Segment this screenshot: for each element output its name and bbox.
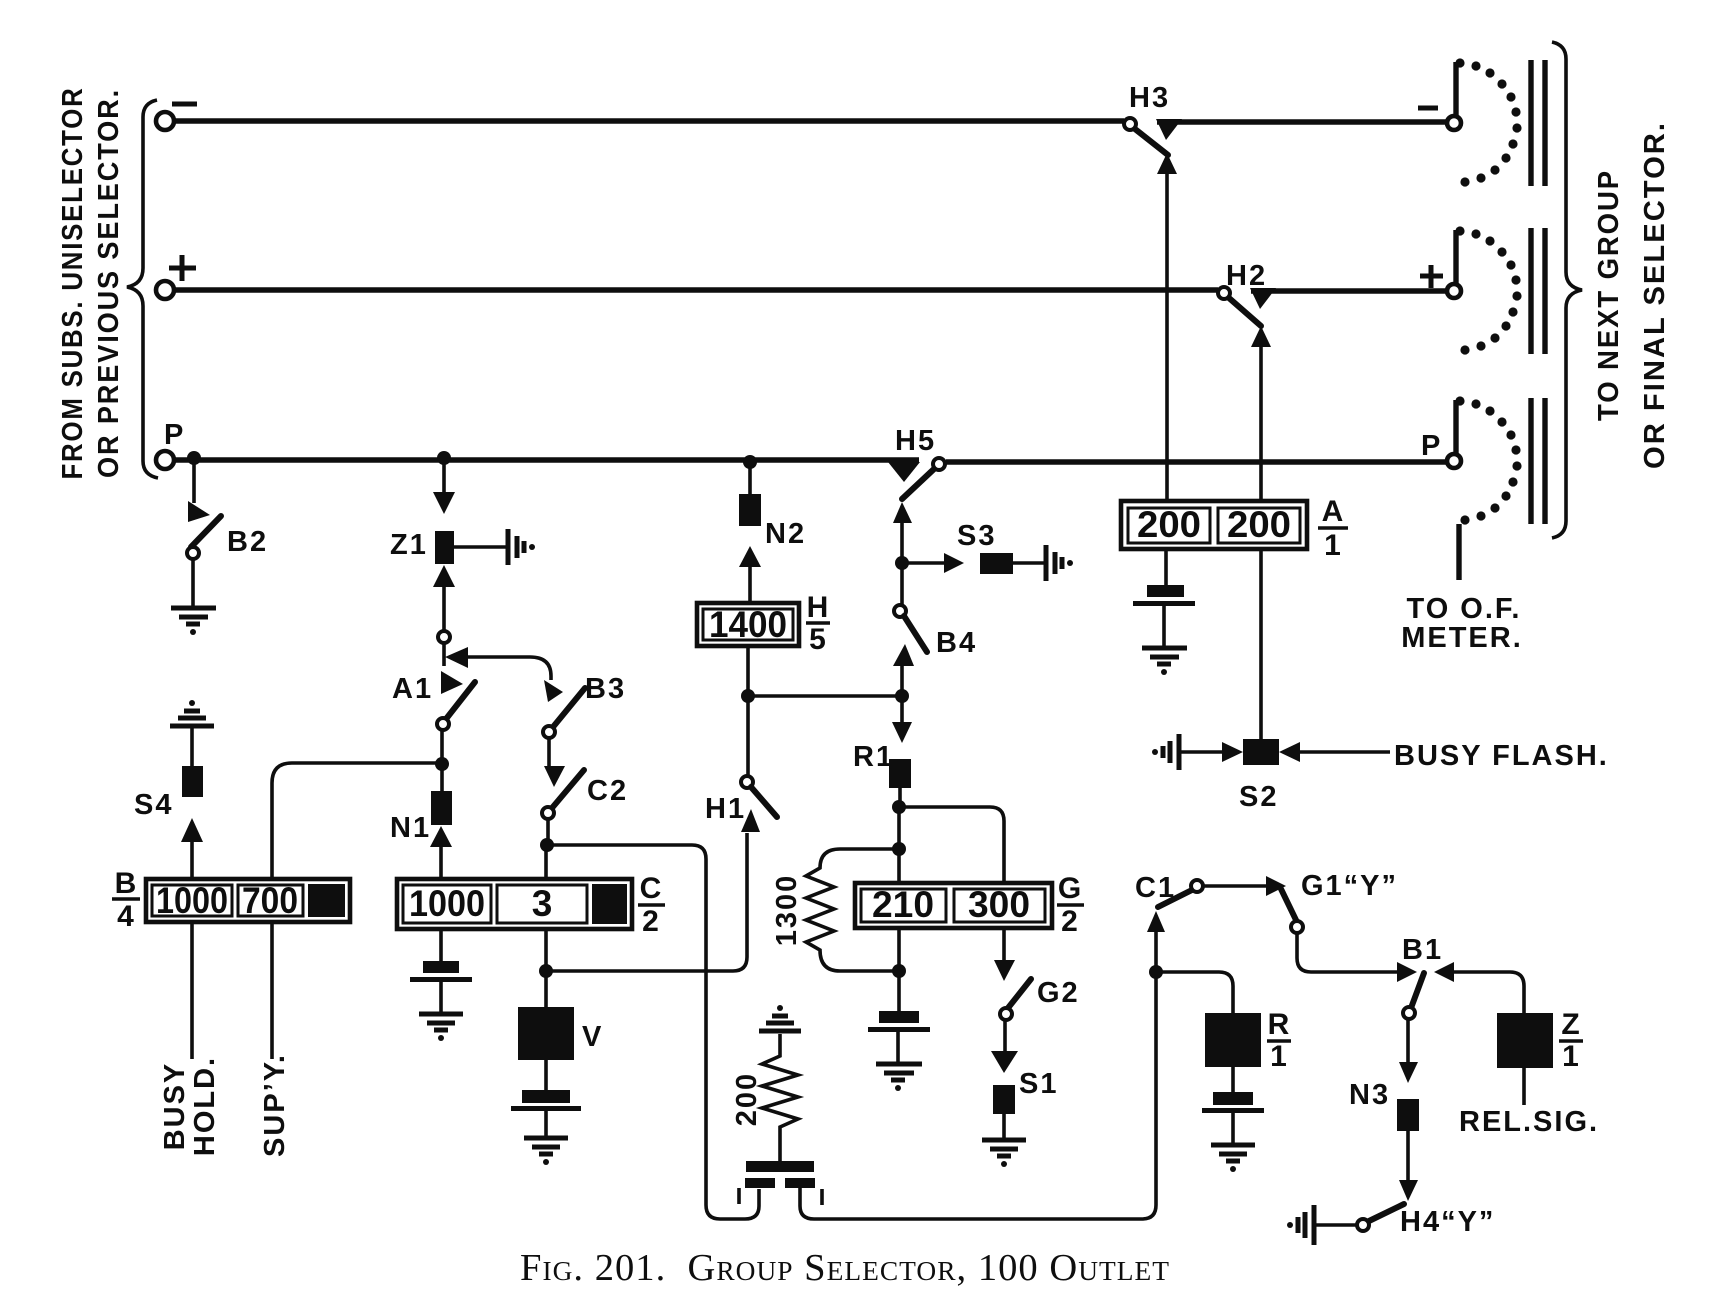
capacitor	[746, 1161, 814, 1172]
terminal plus (left)	[156, 281, 174, 299]
svg-text:G2: G2	[1037, 977, 1080, 1009]
wire battery to ground	[439, 982, 443, 1013]
svg-text:C: C	[640, 872, 663, 905]
svg-text:METER.: METER.	[1401, 622, 1523, 654]
ground (left of S2)	[1152, 734, 1179, 770]
svg-text:R1: R1	[853, 741, 894, 773]
svg-text:1: 1	[1562, 1040, 1580, 1073]
contact H1	[741, 776, 753, 788]
svg-text:700: 700	[242, 880, 298, 921]
node 210 bottom junction	[892, 964, 906, 978]
battery (V)	[522, 1090, 570, 1103]
wire N2 to relay H	[748, 567, 752, 603]
svg-text:2: 2	[1061, 905, 1079, 938]
wire plus bus	[174, 287, 1218, 292]
ground lead into S2	[1222, 742, 1243, 762]
wire to O.F. meter	[1456, 524, 1461, 580]
wire plus bus right segment	[1251, 288, 1447, 293]
wire relay Z to rel sig	[1522, 1068, 1526, 1105]
svg-text:G: G	[1058, 872, 1082, 905]
svg-text:H4“Y”: H4“Y”	[1400, 1206, 1495, 1238]
wire junction to H1	[746, 696, 750, 776]
svg-text:Fig. 201. Group Selector, 100: Fig. 201. Group Selector, 100 Outlet	[520, 1247, 1170, 1289]
ground (A relay)	[1142, 648, 1187, 675]
wire R1 junction to coil 300	[899, 807, 1004, 889]
contact A1	[438, 631, 450, 643]
wire relay H to junction	[746, 646, 750, 696]
wire coil 3 to junction below	[544, 929, 548, 969]
ground (G relay)	[876, 1064, 922, 1091]
wire B2 to ground	[191, 559, 195, 607]
bank contacts P	[1531, 398, 1545, 524]
wire 1000 coil to battery	[439, 929, 443, 961]
svg-text:OR PREVIOUS SELECTOR.: OR PREVIOUS SELECTOR.	[93, 88, 125, 478]
svg-text:H2: H2	[1226, 260, 1267, 292]
right brace (outgoing trunk)	[1552, 42, 1582, 538]
node R1 bottom junction	[892, 800, 906, 814]
svg-text:200: 200	[731, 1072, 763, 1126]
wiper plus	[1447, 284, 1461, 298]
relay Z	[1497, 1013, 1553, 1068]
wire P to N2	[748, 462, 752, 494]
svg-text:N2: N2	[765, 518, 806, 550]
svg-text:A: A	[1322, 495, 1345, 528]
wire B1 to N3	[1406, 1019, 1410, 1063]
svg-text:G1“Y”: G1“Y”	[1301, 870, 1398, 902]
svg-text:N3: N3	[1349, 1079, 1390, 1111]
rectifier arrow below S4	[181, 818, 203, 842]
svg-text:Z: Z	[1561, 1008, 1580, 1041]
wire 700 coil to supply	[270, 922, 274, 1059]
svg-text:210: 210	[872, 884, 934, 925]
svg-text:2: 2	[642, 905, 660, 938]
wire C2 to coil 3	[546, 819, 550, 841]
contact B4	[900, 569, 904, 605]
relay R	[1205, 1013, 1261, 1067]
ground (B2)	[171, 608, 216, 635]
node junction H coil	[741, 689, 755, 703]
wire G1 to B1	[1297, 933, 1397, 972]
node C1 junction	[1149, 965, 1163, 979]
ground (V)	[524, 1138, 568, 1165]
wire junction to S3	[902, 561, 944, 565]
svg-text:HOLD.: HOLD.	[189, 1056, 221, 1156]
svg-text:1400: 1400	[709, 604, 787, 645]
svg-text:R: R	[1268, 1008, 1291, 1041]
wire R to battery	[1231, 1067, 1235, 1092]
relay N3	[1397, 1099, 1419, 1131]
relay S2	[1243, 739, 1279, 765]
svg-text:B3: B3	[585, 673, 626, 705]
wire P bus	[174, 457, 919, 462]
wire S4 to B relay	[190, 842, 194, 879]
relay B/4	[146, 879, 350, 922]
node junction R1	[895, 689, 909, 703]
svg-text:4: 4	[117, 900, 135, 933]
relay N1	[431, 791, 452, 825]
svg-text:S4: S4	[134, 789, 173, 821]
wire to S4	[190, 726, 194, 766]
node C2 junction	[540, 838, 554, 852]
svg-text:1000: 1000	[156, 880, 228, 921]
svg-text:5: 5	[809, 623, 827, 656]
relay S4	[182, 766, 203, 797]
svg-text:H3: H3	[1129, 82, 1170, 114]
resistor 200	[762, 1034, 798, 1161]
svg-text:H: H	[807, 591, 830, 624]
ground (S1)	[982, 1140, 1026, 1167]
wiper P	[1447, 454, 1461, 468]
svg-text:REL.SIG.: REL.SIG.	[1459, 1106, 1599, 1138]
svg-text:Z1: Z1	[390, 529, 428, 561]
wire 1000 coil to busy hold	[190, 922, 194, 1059]
relay R1	[889, 759, 911, 788]
resistor 1300	[806, 849, 899, 971]
node N1 junction	[435, 757, 449, 771]
wire Z1 to ground	[454, 545, 506, 549]
svg-text:B4: B4	[936, 627, 977, 659]
bank contacts plus	[1531, 228, 1545, 354]
svg-text:1000: 1000	[409, 883, 485, 924]
relay Z1	[435, 531, 454, 564]
relay C/2	[397, 879, 632, 929]
wire battery to ground	[1231, 1113, 1235, 1144]
node S3 junction	[895, 556, 909, 570]
wire S3 to ground	[1013, 561, 1045, 565]
ground (C relay)	[419, 1014, 463, 1041]
svg-text:C2: C2	[587, 775, 628, 807]
wire junction to V	[544, 971, 548, 1007]
svg-text:P: P	[164, 419, 185, 451]
relay A/1	[1121, 501, 1307, 549]
wire minus bus right segment	[1157, 119, 1447, 124]
battery (C relay)	[423, 961, 459, 973]
svg-text:TO O.F.: TO O.F.	[1407, 593, 1522, 625]
relay N2	[739, 494, 761, 526]
wire junction row	[748, 694, 902, 698]
node P tap N2	[743, 455, 757, 469]
wire junction to R1	[900, 702, 904, 723]
svg-text:300: 300	[968, 884, 1030, 925]
wire junction to N1	[440, 764, 444, 791]
wire C1 junction to relay R	[1156, 972, 1233, 1013]
wire H5 to S3 junction	[893, 502, 912, 523]
node P tap Z1	[437, 451, 451, 465]
svg-text:BUSY: BUSY	[159, 1062, 191, 1151]
wire G2 to S1	[1003, 1020, 1007, 1052]
wire battery to ground	[896, 1032, 900, 1063]
svg-text:200: 200	[1137, 504, 1201, 545]
wire V to battery	[544, 1060, 548, 1090]
svg-text:BUSY FLASH.: BUSY FLASH.	[1394, 740, 1609, 772]
svg-text:1300: 1300	[771, 874, 803, 947]
wire junction to H1	[546, 833, 747, 971]
svg-text:H5: H5	[895, 425, 936, 457]
wire battery to ground	[1162, 606, 1166, 646]
rectifier arrow below N1	[430, 826, 452, 847]
wire C2 junction to capacitor left plate	[547, 845, 759, 1219]
svg-text:H1: H1	[705, 793, 746, 825]
svg-text:1: 1	[1270, 1040, 1288, 1073]
relay H 1400	[697, 603, 799, 646]
battery (R relay)	[1213, 1092, 1253, 1105]
battery symbol above S4	[170, 700, 214, 726]
relay S1	[993, 1085, 1015, 1114]
wire A coil to battery	[1164, 549, 1168, 585]
wire capacitor right plate to C1	[800, 931, 1156, 1219]
label plus left	[169, 255, 196, 281]
wire battery to ground	[544, 1111, 548, 1137]
svg-text:B2: B2	[227, 526, 268, 558]
contact G2	[1002, 928, 1006, 961]
svg-text:A1: A1	[392, 673, 433, 705]
wire junction to B relay 700 coil	[272, 763, 442, 879]
wire P to Z1	[442, 458, 446, 493]
contact G1 Y	[1281, 889, 1296, 920]
svg-text:200: 200	[1227, 504, 1291, 545]
svg-text:B: B	[115, 867, 138, 900]
terminal P (left)	[156, 451, 174, 469]
wire C1 to G1	[1203, 884, 1266, 888]
wire Z1 to A1	[442, 586, 446, 631]
wire A1 to N1 junction	[440, 730, 444, 762]
label minus right	[1418, 106, 1438, 111]
wire into coil 210	[897, 849, 901, 884]
battery (A relay)	[1147, 585, 1184, 597]
label plus right	[1420, 265, 1443, 288]
wire N1 to coil 1000	[439, 847, 443, 880]
svg-text:V: V	[582, 1021, 603, 1053]
rectifier arrow into Z1	[433, 492, 455, 514]
svg-text:S1: S1	[1019, 1068, 1058, 1100]
svg-text:P: P	[1421, 430, 1442, 462]
rectifier arrow below N2	[739, 546, 761, 567]
contact H4 Y	[1369, 1204, 1404, 1221]
wire B3 to C2	[547, 738, 551, 766]
wire P bus right segment	[946, 459, 1447, 464]
ground (R relay)	[1211, 1145, 1255, 1172]
left brace (incoming trunk)	[127, 100, 158, 478]
svg-text:1: 1	[1324, 529, 1342, 562]
battery (G relay)	[879, 1011, 919, 1023]
svg-text:C1: C1	[1135, 872, 1176, 904]
label minus left	[172, 102, 197, 107]
ground (right of S3)	[1046, 545, 1073, 581]
wire S1 to ground	[1002, 1114, 1006, 1139]
node coil 3 bottom junction	[539, 964, 553, 978]
svg-text:S3: S3	[957, 520, 996, 552]
wiper minus	[1447, 116, 1461, 130]
svg-text:TO NEXT GROUP: TO NEXT GROUP	[1593, 169, 1625, 421]
contact B3	[553, 688, 585, 727]
pin 1 right	[820, 1189, 824, 1205]
wire A coil to S2	[1259, 549, 1263, 739]
svg-text:B1: B1	[1402, 934, 1443, 966]
relay V	[518, 1007, 574, 1060]
contact C1	[1147, 911, 1165, 932]
svg-text:3: 3	[532, 883, 553, 924]
pin 1 left	[737, 1188, 741, 1204]
relay G	[855, 883, 1052, 928]
wire A1 fixed contact to B3	[467, 657, 551, 680]
wire H4 to ground	[1315, 1223, 1357, 1227]
svg-text:OR FINAL SELECTOR.: OR FINAL SELECTOR.	[1639, 121, 1671, 469]
wire R1 to junction	[898, 788, 902, 806]
wire P to B2	[192, 458, 196, 503]
wire H2 to S2	[1251, 326, 1271, 347]
svg-text:SUP’Y.: SUP’Y.	[259, 1053, 291, 1157]
battery symbol above resistor 200	[759, 1005, 801, 1031]
rectifier arrow below Z1	[433, 565, 455, 587]
bank contacts minus	[1531, 60, 1545, 186]
svg-text:S2: S2	[1239, 781, 1278, 813]
wire coil 210 to battery	[897, 928, 901, 970]
busy flash lead into S2	[1279, 742, 1300, 762]
wire B4 to junction	[900, 665, 904, 696]
node P tap B2	[187, 451, 201, 465]
wire B1 to relay Z	[1454, 972, 1524, 1013]
contact B2	[188, 501, 210, 522]
relay S3	[980, 553, 1013, 574]
svg-text:N1: N1	[390, 812, 431, 844]
node resistor top junction	[892, 842, 906, 856]
wire H3 to relay A	[1157, 153, 1177, 174]
terminal minus (left)	[156, 112, 174, 130]
wire minus bus	[174, 118, 1124, 123]
ground (right of Z1)	[508, 529, 535, 565]
ground (left of H4)	[1287, 1205, 1314, 1245]
svg-text:FROM SUBS. UNISELECTOR: FROM SUBS. UNISELECTOR	[57, 87, 89, 480]
contact C2	[552, 770, 584, 808]
wire N3 to H4	[1406, 1131, 1410, 1181]
